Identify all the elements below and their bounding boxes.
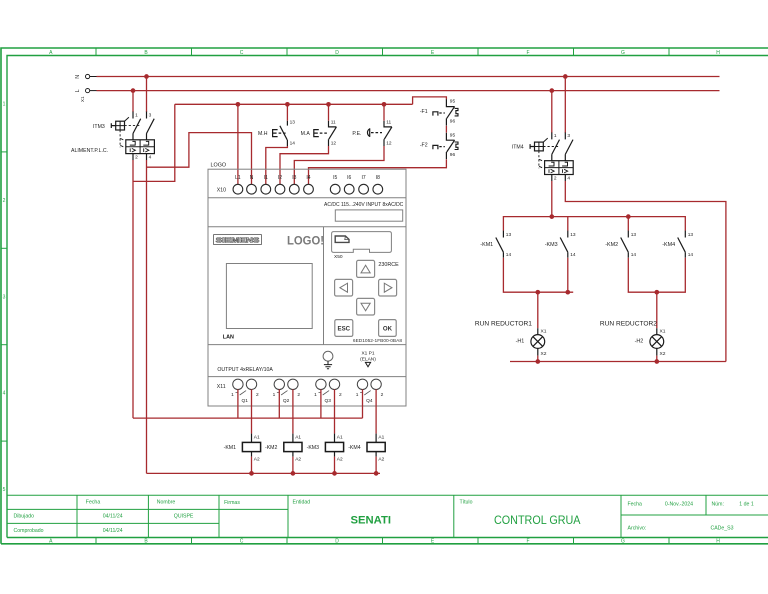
svg-text:C: C	[240, 539, 244, 545]
wire LOGO L1 input	[237, 104, 239, 184]
svg-text:G: G	[621, 539, 625, 545]
svg-text:X2: X2	[660, 351, 666, 357]
svg-text:12: 12	[386, 140, 392, 146]
svg-text:4: 4	[3, 391, 6, 397]
junction N bus / ITM4 pin3	[563, 74, 568, 79]
svg-text:A1: A1	[337, 435, 343, 441]
wire F2 96 to LOGO I4	[309, 159, 447, 184]
svg-text:-KM2: -KM2	[605, 242, 618, 248]
svg-text:ESC: ESC	[338, 326, 351, 333]
svg-text:P.E.: P.E.	[352, 131, 361, 137]
pushbutton M.A (NC, 11-12)	[301, 119, 337, 146]
junction N bus / ITM3 pin3	[144, 74, 149, 79]
svg-text:I2: I2	[278, 175, 282, 181]
svg-text:4: 4	[149, 155, 152, 161]
svg-text:-KM3: -KM3	[545, 242, 558, 248]
wire N bus	[97, 76, 720, 78]
contactor coil KM3	[307, 434, 344, 463]
svg-text:I6: I6	[347, 175, 351, 181]
wire ITM3 pin4 to LOGO N and down	[147, 133, 252, 474]
svg-text:H: H	[716, 539, 720, 545]
svg-text:Entidad: Entidad	[293, 499, 311, 505]
svg-text:M.H: M.H	[258, 131, 268, 137]
svg-text:X10: X10	[217, 187, 226, 193]
svg-text:14: 14	[506, 252, 512, 258]
svg-text:C: C	[240, 50, 244, 56]
junction lamp H2 tap	[654, 290, 659, 295]
svg-text:0-Nov.-2024: 0-Nov.-2024	[665, 502, 693, 508]
wire Q1 to KM1 coil	[251, 389, 253, 433]
svg-text:A1: A1	[378, 435, 384, 441]
circuit breaker ITM3	[93, 111, 154, 161]
junction control line / M.A	[326, 102, 331, 107]
svg-text:1: 1	[554, 133, 557, 139]
svg-text:LAN: LAN	[223, 335, 234, 341]
svg-text:Título: Título	[460, 499, 473, 505]
svg-text:AC/DC 115...240V INPUT 8xAC/DC: AC/DC 115...240V INPUT 8xAC/DC	[324, 202, 404, 208]
svg-text:3: 3	[3, 294, 6, 300]
indicator lamp H2	[600, 321, 666, 357]
svg-text:5: 5	[3, 487, 6, 493]
aux contact KM1 (13-14)	[480, 231, 511, 258]
wire control to P.E. 11	[383, 104, 385, 120]
svg-text:A1: A1	[295, 435, 301, 441]
junction control line / LOGO L1	[236, 102, 241, 107]
svg-text:X2: X2	[541, 351, 547, 357]
svg-text:Q4: Q4	[366, 398, 373, 404]
wire P.E. 12 to LOGO I3	[294, 146, 384, 185]
svg-text:230RCE: 230RCE	[378, 262, 399, 268]
svg-text:A1: A1	[254, 435, 260, 441]
wire KM contact rail	[503, 217, 685, 231]
svg-text:Fecha: Fecha	[86, 500, 101, 506]
svg-text:ITM4: ITM4	[512, 145, 524, 151]
junction L bus / ITM4 pin1	[549, 88, 554, 93]
svg-text:N: N	[75, 75, 81, 79]
svg-text:H: H	[716, 50, 720, 56]
svg-text:04/11/24: 04/11/24	[103, 513, 123, 519]
svg-text:-H1: -H1	[516, 338, 525, 344]
aux contact KM3 (13-14)	[545, 231, 576, 258]
wire ITM3 pin2 to control line and down	[133, 104, 175, 418]
wire ITM4 pin2 to KM rail	[551, 181, 553, 217]
svg-text:1 de 1: 1 de 1	[739, 502, 754, 508]
svg-text:ITM3: ITM3	[93, 124, 105, 130]
svg-text:I3: I3	[292, 175, 296, 181]
svg-text:3: 3	[149, 112, 152, 118]
wire M.A 12 to LOGO I2	[280, 146, 329, 185]
svg-text:13: 13	[688, 232, 694, 238]
terminal N (supply)	[75, 74, 97, 78]
svg-text:-KM4: -KM4	[662, 242, 675, 248]
junction KM rail / ITM4 pin2	[549, 214, 554, 219]
terminal L (supply)	[75, 89, 97, 103]
junction control line / M.H	[285, 102, 290, 107]
junction H1 return	[535, 359, 540, 364]
svg-text:ALIMENT.P.L.C.: ALIMENT.P.L.C.	[71, 148, 108, 154]
svg-text:11: 11	[331, 119, 336, 125]
svg-text:14: 14	[631, 252, 637, 258]
svg-text:1: 1	[314, 392, 317, 398]
svg-text:X1: X1	[660, 328, 666, 334]
svg-text:LOGO!: LOGO!	[287, 234, 324, 247]
svg-text:96: 96	[450, 119, 456, 125]
svg-text:F: F	[526, 50, 529, 56]
svg-text:Comprobado: Comprobado	[14, 528, 44, 534]
svg-text:LOGO: LOGO	[211, 163, 227, 169]
svg-text:Q2: Q2	[283, 398, 290, 404]
svg-text:-KM3: -KM3	[307, 445, 320, 451]
wire M.H 14 to LOGO I1	[266, 146, 288, 185]
svg-text:A2: A2	[295, 456, 301, 462]
svg-text:1: 1	[3, 102, 6, 108]
svg-text:L1: L1	[235, 175, 241, 181]
junction control line / P.E.	[382, 102, 387, 107]
svg-text:F: F	[526, 539, 529, 545]
svg-text:I7: I7	[362, 175, 366, 181]
svg-text:11: 11	[386, 119, 391, 125]
svg-text:14: 14	[290, 140, 296, 146]
wire Q2 to KM2 coil	[292, 389, 294, 433]
svg-text:X1: X1	[80, 96, 85, 102]
contactor coil KM2	[265, 434, 302, 463]
svg-text:A2: A2	[254, 456, 260, 462]
svg-text:14: 14	[688, 252, 694, 258]
svg-text:CONTROL GRUA: CONTROL GRUA	[494, 513, 581, 527]
wire L to ITM3 pin1	[132, 93, 134, 112]
wire lamps to return rail	[510, 356, 726, 362]
aux contact KM2 (13-14)	[605, 231, 636, 258]
indicator lamp H1	[475, 321, 547, 357]
svg-text:4: 4	[567, 176, 570, 182]
svg-text:X1 P1: X1 P1	[361, 350, 374, 356]
wire control line to F1 95	[413, 97, 447, 104]
svg-text:N: N	[250, 175, 254, 181]
svg-text:M.A: M.A	[301, 131, 311, 137]
svg-text:D: D	[335, 50, 339, 56]
wire F1 96 to F2 95	[445, 126, 447, 133]
svg-text:Q1: Q1	[241, 398, 248, 404]
svg-text:X50: X50	[334, 254, 343, 260]
wire L bus	[97, 90, 720, 92]
junction lamp H1 tap	[535, 290, 540, 295]
svg-text:CADe_S3: CADe_S3	[710, 526, 733, 532]
junction KM3 bottom	[565, 290, 570, 295]
svg-text:Q3: Q3	[324, 398, 331, 404]
svg-text:1: 1	[356, 392, 359, 398]
circuit breaker ITM4	[512, 132, 573, 182]
contactor coil KM1	[224, 434, 261, 463]
svg-text:X1: X1	[541, 328, 547, 334]
svg-text:I5: I5	[333, 175, 337, 181]
svg-text:04/11/24: 04/11/24	[103, 528, 123, 534]
svg-text:96: 96	[450, 152, 456, 158]
svg-text:2: 2	[554, 176, 557, 182]
junction KM4 coil A2 / N rail	[374, 471, 379, 476]
svg-text:2: 2	[256, 392, 259, 398]
svg-text:Fecha: Fecha	[628, 502, 643, 508]
pushbutton M.H (NO, 13-14)	[258, 119, 295, 146]
wire Q4 to KM4 coil	[375, 389, 377, 433]
overload contact F2 (95-96)	[420, 132, 458, 159]
svg-text:Núm:: Núm:	[712, 502, 724, 508]
wire Q3 to KM3 coil	[334, 389, 336, 433]
svg-text:95: 95	[450, 99, 456, 105]
aux contact KM4 (13-14)	[662, 231, 693, 258]
svg-text:Nombre: Nombre	[157, 500, 176, 506]
wire L to ITM4 pin1	[551, 93, 553, 133]
svg-text:G: G	[621, 50, 625, 56]
svg-text:1: 1	[231, 392, 234, 398]
svg-text:SENATI: SENATI	[351, 514, 392, 526]
svg-text:I1: I1	[264, 175, 268, 181]
junction H2 return	[654, 359, 659, 364]
svg-text:-KM1: -KM1	[224, 445, 237, 451]
svg-text:OK: OK	[383, 326, 393, 333]
svg-text:2: 2	[297, 392, 300, 398]
svg-text:Dibujado: Dibujado	[14, 513, 35, 519]
svg-text:-F1: -F1	[420, 109, 428, 115]
svg-text:12: 12	[331, 140, 337, 146]
svg-text:13: 13	[631, 232, 637, 238]
svg-text:RUN REDUCTOR2: RUN REDUCTOR2	[600, 321, 657, 328]
svg-text:(ELAN): (ELAN)	[360, 356, 376, 362]
wire KM2/KM4 to lamp H2	[628, 258, 685, 329]
svg-text:95: 95	[450, 132, 456, 138]
svg-text:13: 13	[290, 119, 296, 125]
svg-text:Firmas: Firmas	[224, 500, 240, 506]
svg-text:-F2: -F2	[420, 143, 428, 149]
junction L bus / ITM3 pin1	[131, 88, 136, 93]
svg-text:D: D	[335, 539, 339, 545]
svg-text:Archivo:: Archivo:	[628, 526, 647, 532]
svg-text:RUN REDUCTOR1: RUN REDUCTOR1	[475, 321, 532, 328]
wire Q common rail from L	[133, 389, 363, 418]
svg-text:2: 2	[135, 155, 138, 161]
svg-text:A2: A2	[337, 456, 343, 462]
wire coil returns to N rail	[147, 457, 381, 474]
svg-text:I8: I8	[376, 175, 380, 181]
svg-text:I4: I4	[306, 175, 310, 181]
svg-text:X11: X11	[217, 384, 226, 390]
junction KM2 coil A2 / N rail	[291, 471, 296, 476]
wire control to M.A 11	[328, 104, 330, 120]
wire control line (node L-ctrl)	[175, 103, 413, 105]
svg-text:2: 2	[381, 392, 384, 398]
wire N to ITM3 pin3	[146, 79, 148, 112]
wire ITM4 pin4 to lamp return rail	[565, 181, 726, 362]
wire control to M.H 13	[286, 104, 288, 120]
svg-text:L: L	[75, 89, 81, 92]
pushbutton P.E. (emergency stop NC, 11-12)	[352, 119, 392, 146]
svg-text:14: 14	[570, 252, 576, 258]
svg-text:2: 2	[339, 392, 342, 398]
svg-text:3: 3	[567, 133, 570, 139]
svg-text:A2: A2	[378, 456, 384, 462]
contactor coil KM4	[348, 434, 385, 463]
svg-text:-KM4: -KM4	[348, 445, 361, 451]
overload contact F1 (95-96)	[420, 99, 458, 126]
junction KM rail / KM2 branch	[626, 214, 631, 219]
junction KM3 coil A2 / N rail	[332, 471, 337, 476]
svg-text:-KM2: -KM2	[265, 445, 278, 451]
svg-text:OUTPUT 4xRELAY/10A: OUTPUT 4xRELAY/10A	[217, 367, 273, 373]
svg-text:2: 2	[3, 198, 6, 204]
svg-text:13: 13	[506, 232, 512, 238]
svg-text:SIEMENS: SIEMENS	[216, 238, 260, 245]
wire KM1/KM3 to lamp H1	[503, 258, 573, 329]
junction KM1 coil A2 / N rail	[249, 471, 254, 476]
PLC LOGO! 230RCE	[208, 163, 406, 406]
svg-text:-H2: -H2	[635, 338, 644, 344]
svg-text:1: 1	[273, 392, 276, 398]
wire N to ITM4 pin3	[564, 79, 566, 133]
svg-text:6ED1052-1FB00-0BA8: 6ED1052-1FB00-0BA8	[353, 338, 402, 344]
svg-text:1: 1	[135, 112, 138, 118]
svg-text:-KM1: -KM1	[480, 242, 493, 248]
svg-text:QUISPE: QUISPE	[174, 513, 194, 519]
svg-text:13: 13	[570, 232, 576, 238]
